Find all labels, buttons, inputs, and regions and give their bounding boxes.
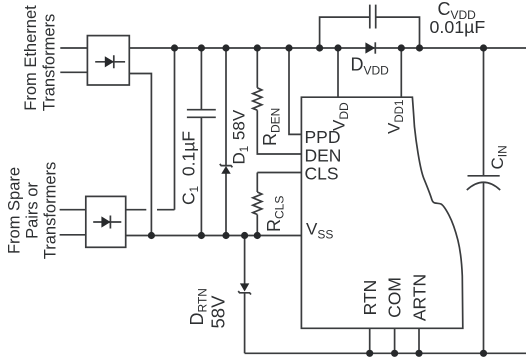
wire: ARTN pin stub [418,328,420,353]
bridge rectifier (bottom, from spare pairs) [86,196,126,247]
bridge rectifier (top, from Ethernet) [87,36,129,85]
wire: top bridge input leads [60,48,87,72]
capacitor CVDD bypass loop [320,5,420,48]
svg-text:DRTN: DRTN [187,288,210,325]
capacitor C1 [187,48,216,236]
zener diode D1 58V [220,48,233,236]
svg-text:VDD1: VDD1 [385,100,407,134]
svg-text:CIN: CIN [488,145,510,169]
junction dots: bottom return rail [366,350,487,357]
svg-text:D1 58V: D1 58V [230,109,252,164]
svg-text:PPD: PPD [305,127,341,147]
wire: bottom return rail [245,352,526,354]
junction dots: VSS rail [148,232,261,239]
wire: VDD1 pin stub [400,48,402,97]
IC U1 outline (partial, torn right edge) [301,97,462,328]
svg-text:From EthernetTransformers: From EthernetTransformers [22,5,59,111]
svg-text:VSS: VSS [306,220,333,242]
resistor RCLS [253,173,302,236]
svg-text:C1 0.1µF: C1 0.1µF [179,131,202,205]
wire: top bridge lower output down to VSS rail [129,74,151,236]
svg-text:COM: COM [385,277,405,318]
wire: RTN pin stub [369,328,371,353]
wire: VDD pin stub [337,48,339,97]
svg-text:DVDD: DVDD [351,55,390,78]
wire: bottom bridge input leads [60,210,86,235]
svg-text:From SparePairs orTransformers: From SparePairs orTransformers [6,162,60,260]
svg-text:0.01µF: 0.01µF [430,17,486,37]
junction dots: top rail [171,44,487,51]
svg-text:RTN: RTN [360,280,380,316]
resistor RDEN [253,48,302,154]
wire: top rail (VDD rail) [129,47,526,49]
svg-text:58V: 58V [208,295,229,329]
svg-text:RDEN: RDEN [260,108,283,146]
wire: bottom bridge upper output up to top rail (hops over crossing wire) [126,48,175,210]
capacitor CIN (polarized) [467,48,500,353]
zener diode DRTN 58V [238,236,251,354]
svg-text:RCLS: RCLS [264,196,287,232]
svg-text:ARTN: ARTN [410,274,430,321]
wire: PPD to top rail [289,48,301,134]
wire: VSS rail (bottom bridge lower output to IC VSS pin) [126,235,302,237]
wire: COM pin stub [394,328,396,353]
diode DVDD [365,42,375,53]
svg-text:CLS: CLS [305,163,339,183]
